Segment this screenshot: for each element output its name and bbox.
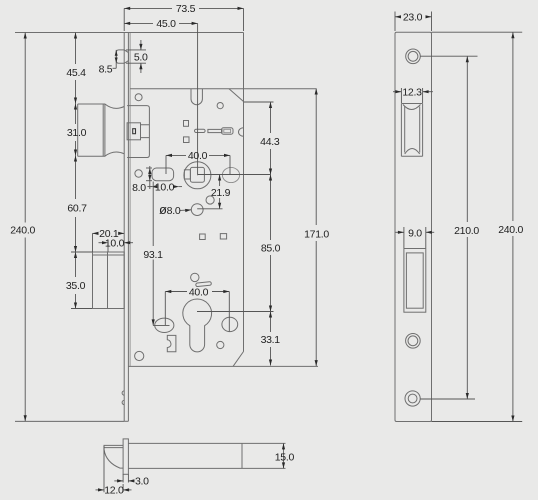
top screw hole [406,49,421,64]
case bottom chamfer [233,352,244,367]
oval center cross [153,324,170,326]
faceplate right edge [127,33,129,422]
euro cylinder hole [183,299,212,352]
half hole at case right edge [238,128,243,137]
spring box link lines [141,125,150,138]
latch tail block [127,106,149,158]
dim 171.0 [304,89,329,367]
dim 45.4 [66,33,86,104]
svg-text:44.3: 44.3 [260,136,280,148]
dim 8.0 hub [132,166,152,194]
centerline 45.0 down to follower [197,23,199,175]
screw post square B [184,137,190,143]
dim 210.0 [454,56,479,399]
inner plate chamfer [229,89,244,102]
svg-text:240.0: 240.0 [10,225,35,237]
bracket clip [167,335,176,351]
deadbolt cutout inner [406,253,423,308]
svg-text:21.9: 21.9 [211,187,231,199]
dim 93.1 [143,182,163,326]
MAIN VIEW DIMENSIONS [10,3,329,421]
dim 10.0 deadbolt [99,237,134,252]
crank link bar [208,129,222,132]
dim 20.1 [93,228,125,252]
screw post square D [220,234,226,239]
latch bolt section [104,445,123,468]
dim 23.0 [395,12,432,32]
top edge extension [432,31,523,33]
svg-text:210.0: 210.0 [454,225,479,237]
svg-text:10.0: 10.0 [105,237,125,249]
faceplate section [123,439,128,474]
dim 31.0 [67,104,87,156]
svg-text:73.5: 73.5 [176,3,196,15]
follower side rect [184,170,190,179]
svg-text:45.0: 45.0 [156,18,176,30]
svg-text:15.0: 15.0 [275,452,295,464]
svg-text:31.0: 31.0 [67,127,87,139]
faceplate rivet bumps [122,391,124,405]
dim 35.0 [66,252,93,309]
faceplate bottom cap [124,420,128,422]
cylinder screw boss right [222,317,238,331]
bottom screw hole [405,391,420,406]
svg-text:35.0: 35.0 [66,280,86,292]
dim 8.5 leader [99,50,118,76]
dim 73.5 [124,3,243,31]
svg-text:8.0: 8.0 [132,182,146,194]
follower circle [184,162,211,189]
dim 40.0 bottom [165,286,229,331]
handle hub stadium [152,168,174,181]
dim 40.0 top [166,150,230,175]
dim 85.0 [197,175,281,312]
svg-text:9.0: 9.0 [408,228,422,240]
bottom edge extension [432,421,523,423]
dim 240.0 right [498,32,523,421]
dim 12.3 [393,87,433,104]
svg-text:45.4: 45.4 [66,67,86,79]
dim 9.0 [396,227,435,248]
dim 60.7 [67,156,87,253]
small hole right of keyway [217,341,224,348]
svg-text:12.3: 12.3 [402,87,422,99]
svg-text:33.1: 33.1 [261,334,281,346]
small hole above cylinder [191,273,199,281]
top screw extension line [420,55,477,57]
dim 240.0 left [10,33,35,422]
svg-text:40.0: 40.0 [189,286,209,298]
spring anchor pin [133,129,136,134]
dim 10.0 hub [147,181,182,193]
crank link end inner [224,129,231,132]
latch spring box [127,123,140,140]
deadbolt front view [93,252,125,309]
dim 33.1 [261,312,281,366]
latch bolt front [78,104,125,156]
case hole mid left [135,170,142,177]
case left edge [129,33,131,367]
RIGHT VIEW: faceplate elevation [393,12,523,422]
tilted slot bar [196,282,212,287]
case bar bottom edge [128,467,285,469]
case bar divider [241,443,243,468]
cylinder screw boss left [155,318,174,332]
dim 45.0 [124,18,197,30]
svg-text:60.7: 60.7 [67,203,87,215]
deadlock tongue [116,50,128,63]
svg-text:3.0: 3.0 [135,475,149,487]
bottom screw extension line [420,398,475,400]
svg-text:85.0: 85.0 [261,243,281,255]
screw post square C [200,234,206,240]
dim 3.0 [114,474,149,487]
svg-text:10.0: 10.0 [155,181,175,193]
long line follower to 44.3 dim [198,174,271,176]
svg-text:12.0: 12.0 [104,484,124,496]
svg-text:23.0: 23.0 [403,12,423,24]
right hub ellipse [222,167,239,182]
latch cutout [401,104,422,157]
MAIN VIEW: lock body side elevation [15,33,318,422]
mid screw hole [406,334,421,349]
dim dia8.0 leader [159,202,191,217]
dim 12.0 [96,446,132,496]
dim 44.3 [244,102,280,175]
svg-text:40.0: 40.0 [188,150,208,162]
inner top plate line with extension [130,88,316,90]
small hole near 21.9 [206,196,214,204]
dim 21.9 [197,175,230,209]
dim 15.0 [275,443,295,468]
svg-text:ø8.0: ø8.0 [159,202,181,217]
case right edge [243,33,245,352]
crank link end [222,128,234,134]
svg-text:171.0: 171.0 [304,228,329,240]
svg-text:5.0: 5.0 [134,52,148,64]
svg-text:93.1: 93.1 [143,249,163,261]
follower square hole [190,167,204,182]
hole dia8 [191,204,203,216]
case hole bottom left [135,351,144,360]
screw post square A [184,121,189,127]
case bar right edge [283,443,285,468]
U slot on inner plate [191,89,202,105]
deadbolt cutout outer [404,249,426,313]
case bar top edge [128,442,285,444]
faceplate left edge [123,33,125,422]
faceplate outline [395,32,432,421]
case hole top right [217,103,223,109]
case hole top left [135,94,142,101]
transfer pin bar [195,129,206,132]
svg-text:240.0: 240.0 [498,224,523,236]
BOTTOM VIEW: latch section [96,439,295,497]
svg-text:8.5: 8.5 [99,64,113,76]
case bottom edge with extension [128,365,318,367]
dim 5.0 [126,40,148,73]
case top edge with extension [15,32,244,34]
faceplate bottom extension line [15,420,124,422]
